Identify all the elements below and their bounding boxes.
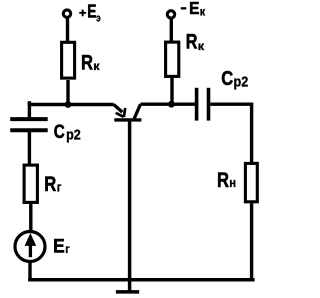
wire terminal to Rк right [170, 18, 173, 42]
svg-text:C: C [54, 120, 65, 142]
source Eг [15, 232, 45, 262]
svg-text:R: R [81, 51, 93, 74]
svg-text:E: E [87, 2, 96, 22]
label Cр2 (right) [221, 66, 248, 89]
svg-text:р2: р2 [66, 126, 81, 143]
svg-text:э: э [96, 13, 100, 26]
label +Eэ [79, 2, 101, 25]
wire base lead to ground [128, 121, 132, 292]
svg-text:+: + [79, 6, 86, 20]
svg-text:C: C [221, 66, 233, 89]
terminal -Eк [167, 11, 174, 18]
svg-text:к: к [93, 59, 100, 73]
ground [116, 290, 139, 294]
label Rк (left) [81, 51, 100, 74]
resistor Rг [24, 165, 37, 202]
wire collector node horizontal [141, 102, 196, 105]
label Cр2 (left) [54, 120, 81, 143]
wire Rк right to collector node [170, 78, 173, 106]
wire Eг to bottom rail [28, 261, 31, 282]
wire Rн to bottom rail [250, 203, 253, 281]
resistor Rк (right) [166, 42, 179, 76]
label Eг [53, 234, 70, 256]
wire Cр2 to Rг [28, 131, 31, 165]
svg-text:к: к [200, 6, 206, 19]
capacitor Cр2 (right) [197, 88, 209, 121]
resistor Rн [245, 163, 257, 201]
svg-text:R: R [217, 168, 229, 191]
svg-text:н: н [229, 175, 236, 190]
label Rн [217, 168, 236, 191]
wire terminal to Rк left [66, 17, 69, 43]
wire bottom rail [28, 278, 254, 282]
junction collector node [168, 101, 175, 108]
transistor VT (pnp, common base) [114, 104, 142, 120]
resistor Rк (left) [62, 42, 75, 78]
svg-text:R: R [44, 172, 56, 195]
terminal +Eэ [63, 10, 70, 17]
svg-text:E: E [53, 234, 65, 256]
wire Rк left to emitter node [66, 80, 69, 106]
svg-text:г: г [65, 243, 70, 256]
wire Cр2 right to Rн [210, 104, 251, 162]
junction emitter node [65, 101, 72, 108]
svg-text:г: г [57, 180, 62, 195]
svg-text:к: к [198, 39, 205, 53]
capacitor Cр2 (left) [10, 119, 48, 130]
svg-text:E: E [189, 0, 199, 18]
label -Eк [181, 0, 206, 19]
label Rг [44, 172, 61, 195]
svg-text:R: R [186, 30, 198, 53]
wire node to Cр2 left [28, 101, 31, 118]
wire emitter node horizontal [28, 103, 114, 106]
svg-text:p2: p2 [234, 72, 249, 89]
wire Rг to Eг [29, 204, 32, 232]
label Rк (right) [186, 30, 205, 53]
